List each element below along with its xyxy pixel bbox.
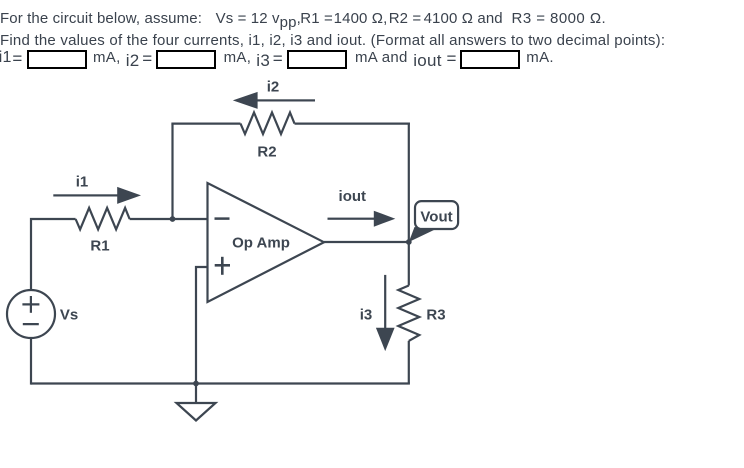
label i2 [267, 79, 280, 96]
wire: right rail lower (R3 to bottom wire) [408, 341, 410, 384]
svg-text:i2: i2 [267, 79, 280, 96]
answer row: label i3 [256, 53, 270, 68]
wire: non-inverting input down to ground rail [196, 267, 208, 384]
answer row: trailing mA. [526, 50, 554, 65]
answer row: mA and [355, 50, 408, 65]
svg-text:R3: R3 [426, 307, 445, 324]
wire: top wire left of R2 [171, 122, 240, 124]
Vout callout box [415, 201, 458, 229]
answer row: = (4) [447, 51, 457, 66]
voltage source Vs circle [7, 290, 55, 338]
node G: junction dot at ground [193, 381, 199, 387]
wire: left rail upper (source to R1 wire) [31, 219, 76, 290]
svg-text:Op Amp: Op Amp [232, 235, 290, 252]
ground symbol triangle [177, 403, 216, 421]
node Vout: junction dot at output [406, 239, 412, 245]
op-amp U1 triangle [208, 183, 325, 302]
answer row: label i1 = [0, 50, 12, 65]
problem text line 2 [0, 33, 665, 48]
wire: right rail upper (top wire to output node) [408, 123, 410, 243]
svg-text:R2: R2 [257, 144, 276, 161]
wire: top wire right of R2 [295, 122, 410, 124]
current arrow i3 [376, 275, 395, 351]
wire: left rail lower (bottom to source) [30, 338, 32, 385]
resistor R2 [241, 113, 295, 135]
answer blank box 1 [27, 50, 87, 69]
answer row: label i2 [126, 53, 140, 68]
op-amp plus input symbol [215, 257, 230, 275]
problem text line 1 [0, 11, 606, 26]
wire: R1 to op-amp inverting input [130, 218, 208, 220]
label i1 [76, 174, 89, 191]
label i3 [360, 307, 373, 324]
label Vout [420, 209, 452, 226]
current arrow i2 [233, 92, 315, 109]
resistor R1 [76, 208, 130, 230]
answer row: = (3) [273, 51, 283, 66]
answer row: label iout [413, 53, 442, 68]
wire: bottom wire [31, 382, 410, 384]
voltage source plus sign [22, 296, 39, 313]
label R1 [90, 237, 109, 254]
answer row: mA, (2) [224, 50, 252, 65]
Vout callout tail [409, 227, 436, 242]
node A: junction dot at R1 / feedback / op-amp input [170, 216, 176, 222]
answer blank box 2 [156, 50, 216, 69]
label Vs [60, 307, 78, 324]
resistor R3 [398, 286, 419, 341]
wire: right rail, node to R3 [408, 242, 410, 286]
voltage source minus sign [23, 323, 39, 325]
svg-text:Vs: Vs [60, 307, 78, 324]
label Op Amp [232, 235, 290, 252]
current arrow i1 [53, 187, 141, 204]
answer row: = (2) [142, 51, 152, 66]
current arrow iout [328, 211, 396, 227]
answer blank box 4 [460, 50, 520, 69]
label R2 [257, 144, 276, 161]
wire: feedback loop left vertical [171, 124, 173, 220]
wire: op-amp output to node [324, 241, 409, 243]
ground stub [195, 384, 197, 404]
answer blank box 3 [287, 50, 347, 69]
svg-text:R1: R1 [90, 237, 109, 254]
op-amp minus input symbol [215, 217, 230, 220]
answer row: mA, (1) [93, 50, 121, 65]
svg-text:iout: iout [339, 188, 367, 205]
svg-text:i3: i3 [360, 307, 373, 324]
label iout [339, 188, 367, 205]
svg-text:Vout: Vout [420, 209, 452, 226]
label R3 [426, 307, 445, 324]
svg-text:i1: i1 [76, 174, 89, 191]
